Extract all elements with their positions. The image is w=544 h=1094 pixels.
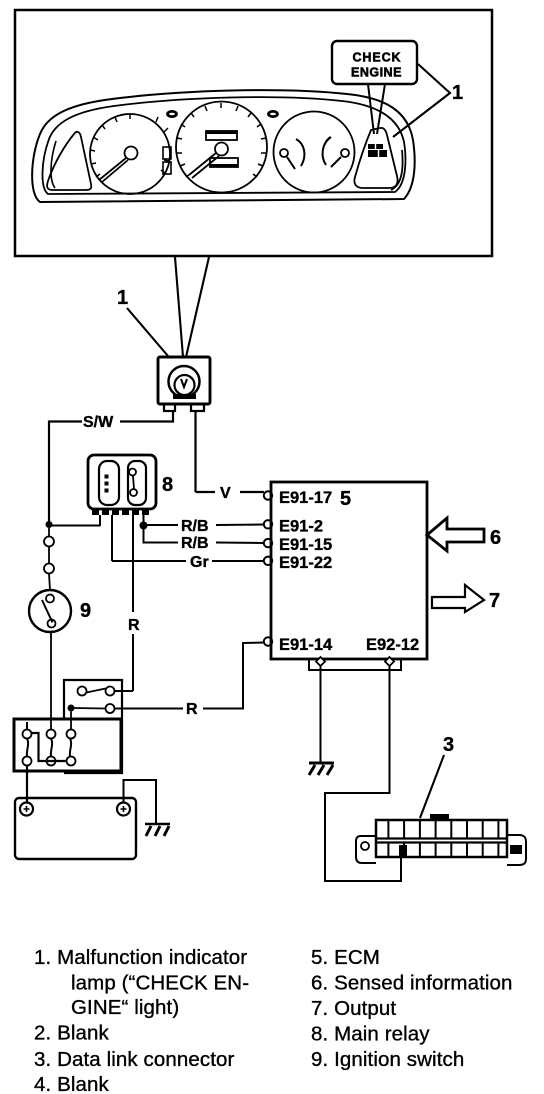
svg-text:7. Output: 7. Output (311, 997, 396, 1020)
svg-text:4. Blank: 4. Blank (34, 1073, 110, 1094)
svg-text:6: 6 (490, 527, 501, 549)
svg-text:E91-15: E91-15 (279, 536, 332, 554)
ignition switch 9 (SW) (29, 590, 71, 632)
ground symbol (ECM) (309, 762, 334, 765)
callout box "CHECK ENGINE" (332, 41, 417, 84)
leader funnel frame to lamp 1 (175, 257, 209, 357)
svg-text:7: 7 (489, 590, 500, 612)
svg-text:E91-14: E91-14 (279, 636, 333, 654)
DLC left ear (356, 836, 376, 863)
temp gauge right element (341, 149, 349, 157)
svg-text:CHECK: CHECK (353, 51, 402, 65)
indicator windows between gauges (163, 147, 171, 159)
svg-text:V: V (220, 485, 231, 502)
svg-text:Gr: Gr (190, 554, 209, 571)
connector block (bold box) (14, 719, 121, 771)
bulb inner circle (175, 375, 195, 395)
speedometer gauge dial (176, 102, 267, 193)
tach ticks (90, 114, 169, 177)
svg-text:1: 1 (452, 82, 463, 104)
connector block internal wires (26, 722, 28, 730)
wire V: horizontal to pin E91-17 (196, 491, 265, 493)
filament (181, 379, 187, 387)
svg-text:E91-2: E91-2 (279, 518, 323, 536)
malfunction indicator lamp 1: housing (158, 357, 210, 404)
tachometer gauge dial (90, 114, 170, 194)
svg-text:1: 1 (117, 287, 128, 309)
instrument cluster outer casing outline (32, 90, 415, 202)
wire Gr: relay to pin E91-22 (112, 560, 264, 562)
frame: illustration border box (15, 10, 492, 256)
callout funnel lines (368, 84, 385, 134)
svg-text:1. Malfunction indicator: 1. Malfunction indicator (34, 946, 247, 969)
speedo ticks (177, 103, 266, 177)
svg-text:8: 8 (162, 474, 173, 496)
wire ignition to lower box (50, 632, 52, 730)
ground symbol (battery) (145, 823, 170, 826)
bulb outer circle (169, 366, 200, 397)
wire S/W: lamp to ignition switch junction (49, 411, 173, 524)
relay bottom hatch (92, 509, 149, 515)
instrument cluster left vent triangle (47, 132, 91, 190)
wire: battery positive to ground (124, 780, 157, 823)
arrow 7: output (from ECM) (432, 585, 484, 612)
svg-text:9: 9 (80, 600, 91, 622)
switch contacts row 1 (78, 687, 87, 696)
svg-text:R: R (186, 701, 198, 718)
bulb base (173, 394, 196, 399)
speedo needle (189, 153, 219, 178)
fuel/temperature gauge dial (274, 112, 355, 193)
svg-text:E91-22: E91-22 (279, 554, 332, 572)
wire V: lamp to ECM (vertical) (194, 411, 196, 492)
svg-text:ENGINE: ENGINE (351, 66, 402, 80)
wire R/B: junction to pin E91-15 (144, 529, 265, 543)
svg-text:E92-12: E92-12 (366, 636, 419, 654)
svg-text:3. Data link connector: 3. Data link connector (34, 1048, 235, 1071)
svg-text:5: 5 (340, 488, 351, 510)
CHECK ENGINE indicator icon (368, 144, 387, 157)
instrument cluster inner casing (42, 97, 405, 194)
instrument cluster right panel (warning lamp area) (354, 128, 397, 188)
ECM bottom connector bracket (309, 659, 401, 670)
svg-text:lamp (“CHECK EN-: lamp (“CHECK EN- (71, 972, 249, 995)
bezel arc left (51, 141, 56, 188)
switch contact box (ignition switch block) (64, 680, 122, 773)
battery B (15, 798, 136, 859)
junction node S/W wire (46, 521, 53, 528)
svg-text:5. ECM: 5. ECM (311, 946, 380, 969)
leader line callout to label 1 (393, 64, 450, 137)
inline connector pair to ignition switch (44, 537, 54, 547)
junction node R/B wires (140, 522, 148, 530)
odometer window (206, 131, 237, 140)
svg-text:9. Ignition switch: 9. Ignition switch (311, 1048, 464, 1071)
trip window (210, 158, 238, 167)
svg-text:GINE“ light): GINE“ light) (71, 996, 179, 1019)
wire: junction down to connector block (70, 712, 72, 730)
speedo hub (215, 143, 228, 156)
leader line label 3 to connector (420, 755, 444, 818)
wire R: relay to lower switch box (vertical) (132, 515, 134, 691)
svg-text:3: 3 (443, 734, 454, 756)
DLC right ear (507, 835, 526, 865)
fuel gauge left element (280, 149, 288, 157)
svg-text:8. Main relay: 8. Main relay (311, 1023, 430, 1046)
arrow 6: sensed information (into ECM) (427, 518, 484, 551)
legend text block (34, 946, 513, 1094)
leader line label 1 to lamp (127, 308, 168, 356)
svg-text:6. Sensed information: 6. Sensed information (311, 972, 513, 995)
tach needle (99, 158, 128, 182)
svg-text:R/B: R/B (181, 535, 209, 552)
switch contacts row 2 with junction dot (68, 705, 75, 712)
svg-text:R/B: R/B (181, 518, 209, 535)
DLC wire entry cell (399, 845, 407, 857)
warning lamp oval right (269, 111, 278, 116)
ECM pins E91-17, E91-2, E91-15, E91-22, E91-14 (264, 491, 272, 499)
warning lamp oval left (168, 111, 177, 116)
wire: ECM bottom pin to ground (320, 666, 322, 762)
wire R: switch box to pin E91-14 (115, 643, 264, 709)
main relay pin leads (100, 515, 144, 561)
connector block terminals (23, 730, 32, 739)
svg-text:E91-17: E91-17 (279, 489, 332, 507)
ECM bottom pins (ground, E92-12) (316, 657, 325, 666)
main relay 8 (K) (88, 455, 156, 509)
svg-text:2. Blank: 2. Blank (34, 1022, 110, 1045)
wire R/B: junction to pin E91-2 (147, 524, 264, 527)
wire: pin E92-12 to data link connector (325, 666, 401, 881)
svg-text:S/W: S/W (83, 414, 114, 431)
lamp tabs (164, 404, 175, 411)
tach hub (125, 147, 138, 160)
svg-text:R: R (128, 617, 140, 634)
bezel arc right corner (391, 150, 403, 190)
ECM 5 (U) box (271, 482, 427, 659)
data link connector 3 body (376, 820, 507, 857)
wire: junction to relay pin (49, 525, 100, 527)
